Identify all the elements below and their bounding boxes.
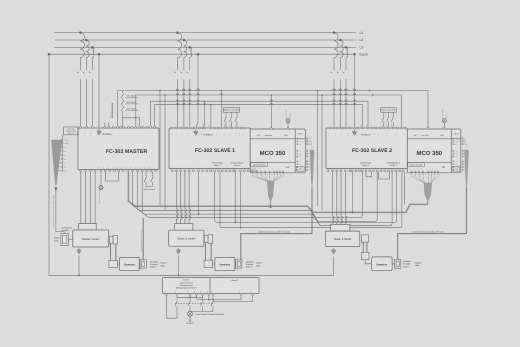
breaker L3 <box>189 69 191 71</box>
svg-text:12: 12 <box>413 168 415 170</box>
slave1 motor coupling <box>204 236 208 243</box>
relay line D from slave1 relay 2 <box>240 172 242 228</box>
power rail L3 <box>54 46 356 48</box>
slave2 absolute encoder <box>392 263 395 265</box>
svg-text:96: 96 <box>393 167 396 169</box>
svg-text:12: 12 <box>263 168 265 170</box>
svg-text:Output: Output <box>160 262 166 265</box>
svg-text:Master motor: Master motor <box>82 237 99 241</box>
signal bus 1 (screened master-encoder bus, grey) <box>128 171 427 212</box>
svg-text:96: 96 <box>208 167 211 169</box>
svg-text:Warning/Alarm: Warning/Alarm <box>230 161 243 164</box>
control line T1 (24V supply master to MCO2) <box>118 91 428 129</box>
svg-text:Enc: Enc <box>452 155 454 158</box>
relay line A from slave1 relay to slave2 <box>215 172 397 223</box>
slave2 motor <box>325 231 359 247</box>
svg-text:39: 39 <box>134 167 137 169</box>
svg-text:39: 39 <box>102 167 105 169</box>
MCO1 X57 pin <box>270 128 272 130</box>
MCO1 feedback cable to slave1 gearbox encoder <box>241 187 312 259</box>
svg-text:7 Z+: 7 Z+ <box>455 161 458 163</box>
svg-text:96: 96 <box>363 167 366 169</box>
svg-text:Absolute: Absolute <box>246 260 255 263</box>
svg-text:Sync/ Homed /Zeroed indication: Sync/ Homed /Zeroed indication <box>196 313 224 316</box>
branch between MCO1 and slave2 down to bus (b) <box>321 94 323 96</box>
svg-text:18: 18 <box>150 180 152 182</box>
master encoder cable from bus <box>142 218 144 260</box>
earth drop wire <box>196 54 198 128</box>
svg-text:96: 96 <box>359 167 362 169</box>
svg-text:39: 39 <box>144 167 147 169</box>
master motor terminal box <box>78 224 96 231</box>
supply dot L1 <box>176 31 179 34</box>
svg-text:96: 96 <box>353 167 356 169</box>
supply dot L1 <box>79 31 82 34</box>
master gearbox shaft <box>109 243 111 260</box>
MCO 350 option box for slave 2 <box>407 129 461 173</box>
master gearbox coupling <box>109 260 117 267</box>
svg-text:96: 96 <box>329 167 332 169</box>
earth drop wire <box>354 54 356 128</box>
svg-text:96: 96 <box>253 167 256 169</box>
earth drop dot <box>353 53 356 56</box>
svg-text:Start/Sim: Start/Sim <box>265 134 273 137</box>
svg-text:Gearbox: Gearbox <box>124 264 135 267</box>
svg-text:Absolute: Absolute <box>403 260 412 263</box>
svg-text:18: 18 <box>187 291 190 293</box>
left selector return wire <box>167 295 178 318</box>
svg-text:18: 18 <box>144 180 146 182</box>
svg-text:10 Gnd: 10 Gnd <box>299 170 304 172</box>
svg-text:2 GND: 2 GND <box>455 141 459 143</box>
svg-text:18: 18 <box>210 291 213 293</box>
svg-text:(At speed indication): (At speed indication) <box>98 187 101 204</box>
master absolute encoder <box>138 263 141 265</box>
svg-text:Output: Output <box>415 261 421 264</box>
svg-text:Encoder: Encoder <box>61 229 69 232</box>
svg-text:96: 96 <box>374 167 377 169</box>
slave2 earth symbol <box>354 130 356 132</box>
branch between MCO1 and slave2 down to bus (a) <box>317 90 319 92</box>
svg-text:shaft: shaft <box>415 264 420 267</box>
slave1 motor earth triangle <box>178 248 180 250</box>
svg-text:10 Gnd: 10 Gnd <box>455 170 460 172</box>
breaker L1 <box>333 69 335 71</box>
svg-text:96: 96 <box>190 167 193 169</box>
svg-text:MCT Step 1: MCT Step 1 <box>126 94 136 97</box>
MCO 350 option box for slave 1 <box>250 129 305 173</box>
svg-text:5 B+: 5 B+ <box>299 153 302 155</box>
earth drop dot <box>98 53 101 56</box>
svg-text:96: 96 <box>249 167 252 169</box>
master motor earth triangle <box>78 248 80 250</box>
svg-text:Slave 2: Slave 2 <box>231 279 239 282</box>
svg-text:96: 96 <box>400 167 403 169</box>
svg-text:96: 96 <box>338 167 341 169</box>
svg-text:Earth: Earth <box>360 52 368 56</box>
svg-text:96: 96 <box>182 167 185 169</box>
svg-text:96: 96 <box>378 167 381 169</box>
fuse L1 <box>178 33 182 69</box>
svg-text:Relay 2: Relay 2 <box>390 164 398 167</box>
svg-text:18: 18 <box>200 291 203 293</box>
master encoder screened cable wedge <box>52 140 63 187</box>
selector box (Case 1 / Slave 2) <box>163 278 260 294</box>
svg-text:96: 96 <box>389 167 392 169</box>
branch from T1 down between drives to signal bus <box>159 90 161 92</box>
svg-text:MCO 350: MCO 350 <box>416 150 442 157</box>
breaker L1 <box>79 69 81 71</box>
svg-text:96: 96 <box>349 167 352 169</box>
svg-text:18: 18 <box>206 291 209 293</box>
svg-text:9 Com: 9 Com <box>455 167 459 169</box>
svg-text:96: 96 <box>342 167 345 169</box>
svg-text:2 GND: 2 GND <box>299 141 303 143</box>
master motor <box>73 230 109 247</box>
svg-text:Encoder: Encoder <box>403 263 411 266</box>
slave1 bottom terminal row <box>171 170 173 172</box>
breaker L1 <box>177 69 179 71</box>
svg-text:Slave 1: Slave 1 <box>246 266 254 269</box>
breaker L2 <box>183 69 185 71</box>
svg-text:39: 39 <box>116 167 119 169</box>
MCO2 X58 pin <box>443 128 445 130</box>
svg-text:L3: L3 <box>360 46 364 50</box>
master encoder cable run <box>56 191 64 234</box>
slave2 bottom terminal row <box>327 170 329 172</box>
svg-text:12: 12 <box>426 168 428 170</box>
svg-text:96: 96 <box>195 167 198 169</box>
svg-text:96: 96 <box>382 167 385 169</box>
MCT step switch chain on master <box>122 91 124 94</box>
MCO1 feedback encoder pins and cable band <box>297 138 298 139</box>
MCO1 master-encoder cable to bus <box>270 202 272 206</box>
FC-302 MASTER drive box <box>78 128 159 170</box>
svg-text:shaft): shaft) <box>54 239 59 242</box>
control line T4 <box>155 105 363 129</box>
slave2 relay jumper U-link 2 <box>378 172 389 179</box>
FC-302 SLAVE 2 drive box <box>326 128 407 169</box>
signal bus 4 <box>142 171 392 225</box>
slave1 gearbox coupling <box>204 260 212 267</box>
slave1 motor wires U V W <box>177 172 179 224</box>
power rail L1 <box>54 32 356 34</box>
MCO1 X58 pin <box>287 128 289 130</box>
svg-text:Relay 1: Relay 1 <box>214 164 222 167</box>
svg-text:Relay 1: Relay 1 <box>362 164 370 167</box>
svg-text:96: 96 <box>356 167 359 169</box>
slave1 earth symbol <box>195 130 197 132</box>
breaker L2 <box>339 69 341 71</box>
svg-text:39: 39 <box>125 167 128 169</box>
fuse L1 <box>334 33 338 69</box>
selector box terminal pins <box>166 293 168 295</box>
MCO2 feedback cable to slave2 gearbox encoder <box>398 187 467 259</box>
svg-text:Master Commands: Master Commands <box>381 109 396 112</box>
svg-text:MCT Step 3: MCT Step 3 <box>126 107 136 110</box>
master motor coupling <box>109 236 113 243</box>
svg-text:39: 39 <box>148 167 151 169</box>
svg-text:39: 39 <box>139 167 142 169</box>
slave2 motor terminal box <box>331 224 350 231</box>
slave2 gearbox shaft <box>362 242 364 252</box>
svg-text:Start/reversing: Start/reversing <box>143 188 155 191</box>
svg-text:Master: Master <box>150 266 156 269</box>
svg-text:L2: L2 <box>360 38 364 42</box>
svg-text:96: 96 <box>367 167 370 169</box>
svg-text:MCO 350: MCO 350 <box>260 150 286 157</box>
selector switches <box>175 300 178 306</box>
svg-text:7 Z+: 7 Z+ <box>299 161 302 163</box>
slave1 absolute encoder <box>234 263 237 265</box>
supply dot L3 <box>91 46 94 49</box>
fuse L3 <box>346 47 348 68</box>
slave2 pin riser to MCO2 junction <box>404 172 406 205</box>
svg-text:18: 18 <box>163 291 166 293</box>
command switch box above slave 2 <box>381 108 396 112</box>
supply dot L3 <box>345 46 348 49</box>
breaker L3 <box>345 69 347 71</box>
svg-text:FC-302 MASTER: FC-302 MASTER <box>106 149 148 155</box>
svg-text:39: 39 <box>111 167 114 169</box>
slave2 top terminal row <box>330 127 332 129</box>
svg-text:39: 39 <box>120 167 123 169</box>
svg-text:(Hollow: (Hollow <box>54 237 61 240</box>
signal bus 2 <box>133 171 363 217</box>
svg-text:Option A: Option A <box>67 132 74 135</box>
master option sub-box <box>64 127 78 135</box>
svg-text:96: 96 <box>178 167 181 169</box>
svg-text:Profibus: Profibus <box>361 134 371 137</box>
master motor wires U V W <box>80 172 82 224</box>
fuse L1 <box>80 33 84 69</box>
svg-text:MCT Step 2: MCT Step 2 <box>126 101 136 104</box>
slave2 encoder-in wire to grey bus <box>351 172 353 213</box>
earth drop wire <box>98 54 100 127</box>
svg-text:96: 96 <box>241 167 244 169</box>
MCO2 master-encoder cable to bus <box>427 202 429 205</box>
virtual master indication lamp at MCO1 <box>286 119 290 123</box>
svg-text:Master Commands: Master Commands <box>224 109 239 112</box>
svg-text:24 VDC: 24 VDC <box>186 322 194 325</box>
svg-text:96: 96 <box>232 167 235 169</box>
svg-text:Gearbox: Gearbox <box>376 263 387 266</box>
svg-text:9 Com: 9 Com <box>299 167 303 169</box>
relay line B from slave1 relay to slave2 <box>220 172 402 228</box>
svg-text:3 A+: 3 A+ <box>299 144 302 146</box>
branch T4 to slave1 command terminal <box>210 104 212 106</box>
selector wiring harness <box>176 295 178 299</box>
branch from T2 down between drives to signal bus <box>164 94 166 96</box>
branch T3 to slave1 command terminal <box>204 100 206 102</box>
master relay return bracket <box>105 172 119 181</box>
svg-text:Relay 2: Relay 2 <box>234 164 242 167</box>
svg-text:96: 96 <box>169 167 172 169</box>
relay line C from slave1 relay 2 <box>234 172 236 223</box>
cable arrowhead <box>54 188 57 192</box>
svg-text:96: 96 <box>245 167 248 169</box>
svg-text:Output: Output <box>256 262 262 265</box>
svg-text:Gearbox: Gearbox <box>219 264 230 267</box>
svg-text:Screened/armoured cable (See n: Screened/armoured cable (See note) <box>52 195 55 228</box>
svg-text:FC-302 SLAVE 2: FC-302 SLAVE 2 <box>352 148 392 154</box>
svg-text:Homing switch: Homing switch <box>180 284 193 287</box>
svg-text:Sync level at 0: Sync level at 0 <box>180 281 194 284</box>
svg-text:5 B+: 5 B+ <box>455 153 458 155</box>
breaker L2 <box>85 69 87 71</box>
master option-A terminal pins <box>61 135 63 171</box>
incremental encoder <box>61 233 68 245</box>
option label bar <box>112 103 113 118</box>
PE bus dot at earth rail <box>48 53 51 56</box>
svg-text:MCB Ready: MCB Ready <box>212 161 223 164</box>
master earth symbol <box>98 129 100 131</box>
svg-text:1 +24V: 1 +24V <box>299 138 303 140</box>
svg-text:96: 96 <box>237 167 240 169</box>
svg-text:96: 96 <box>396 167 399 169</box>
svg-text:96: 96 <box>200 167 203 169</box>
svg-text:18: 18 <box>238 291 241 293</box>
PE ground bus (left drop, bottom run, right rise) <box>49 54 334 275</box>
svg-text:Start/Sim: Start/Sim <box>422 134 430 137</box>
signal bus 3 <box>137 171 377 221</box>
merge chevron on T1 <box>369 89 372 92</box>
FC-302 SLAVE 1 drive box <box>169 128 250 169</box>
svg-text:shaft: shaft <box>160 264 165 267</box>
svg-text:Enc: Enc <box>296 155 298 158</box>
svg-text:96: 96 <box>215 167 218 169</box>
fuse L3 <box>190 47 192 68</box>
slave2 motor coupling <box>362 235 369 242</box>
slave1 terminal 32 wire to bus3 <box>198 172 200 215</box>
svg-text:Encoder: Encoder <box>246 263 254 266</box>
branch T1 to slave1 terminal <box>221 90 223 92</box>
svg-text:Master Encoder: Master Encoder <box>410 163 423 166</box>
svg-text:MCB Ready: MCB Ready <box>360 161 371 164</box>
master start/reversing switches <box>145 171 147 176</box>
svg-text:(Screened/armoured cable. See: (Screened/armoured cable. See Note) <box>412 231 444 234</box>
svg-text:1 +24V: 1 +24V <box>455 138 459 140</box>
fuse L3 <box>92 47 94 68</box>
slave1 motor <box>169 230 204 246</box>
svg-text:96: 96 <box>204 167 207 169</box>
master bottom terminal row <box>80 170 82 172</box>
slave2 gearbox <box>372 257 393 271</box>
breaker L3 <box>91 69 93 71</box>
command switch box above slave 1 <box>223 108 239 112</box>
svg-text:18: 18 <box>250 291 253 293</box>
svg-text:L1: L1 <box>360 31 364 35</box>
merge chevron on T2 <box>372 94 375 97</box>
svg-text:Profibus: Profibus <box>204 134 214 137</box>
fuse L2 <box>184 40 187 69</box>
slave2 gearbox coupling <box>361 252 369 259</box>
virtual master indication lamp at MCO2 <box>442 119 446 123</box>
svg-text:96: 96 <box>385 167 388 169</box>
stub wires 88 89 <box>104 123 106 127</box>
master top terminal row <box>79 126 81 128</box>
master gearbox <box>120 257 140 270</box>
svg-text:Slave 2 Motor: Slave 2 Motor <box>334 237 352 241</box>
svg-text:(Manual/Auto to home): (Manual/Auto to home) <box>176 287 197 290</box>
earth rail PE <box>48 53 357 55</box>
svg-text:Slave 2: Slave 2 <box>403 265 411 268</box>
svg-text:96: 96 <box>334 167 337 169</box>
earth drop dot <box>197 53 200 56</box>
svg-text:18: 18 <box>174 291 177 293</box>
svg-text:(Screened cable. See Note): (Screened cable. See Note) <box>140 229 143 252</box>
svg-text:(Screened/armoured cable. See: (Screened/armoured cable. See Note) <box>258 231 290 234</box>
fuse L2 <box>86 40 89 69</box>
sync indication lamp <box>188 311 193 316</box>
control line T3 <box>151 101 368 128</box>
svg-text:96: 96 <box>223 167 226 169</box>
svg-text:Warning/Alarm: Warning/Alarm <box>387 161 400 164</box>
svg-text:Encoder: Encoder <box>150 263 158 266</box>
svg-text:96: 96 <box>186 167 189 169</box>
svg-text:96: 96 <box>227 167 230 169</box>
slave1 gearbox <box>215 257 235 270</box>
svg-text:96: 96 <box>219 167 222 169</box>
MCO2 X57 pin <box>427 128 429 130</box>
slave2 motor wires U V W <box>333 172 335 227</box>
switch outputs merge <box>190 311 213 313</box>
svg-text:39: 39 <box>152 167 155 169</box>
svg-text:Absolute: Absolute <box>150 260 159 263</box>
svg-text:39: 39 <box>130 167 133 169</box>
svg-text:shaft: shaft <box>256 264 261 267</box>
power rail L2 <box>54 39 356 41</box>
slave2 motor earth triangle <box>333 248 335 250</box>
supply dot L3 <box>189 46 192 49</box>
svg-text:Master Encoder: Master Encoder <box>253 163 266 166</box>
svg-text:MCO: MCO <box>454 133 459 136</box>
branch T2 to MCO1 X57 input <box>271 94 273 96</box>
MCO2 master-encoder input pins and wedge <box>411 171 412 172</box>
MCO2 feedback encoder pins and cable band <box>453 138 454 139</box>
supply dot L2 <box>85 39 88 42</box>
svg-text:Case 1: Case 1 <box>183 279 190 282</box>
svg-text:96: 96 <box>173 167 176 169</box>
svg-text:Slave 1 motor: Slave 1 motor <box>177 237 195 241</box>
svg-text:18: 18 <box>193 291 196 293</box>
supply dot L1 <box>333 31 336 34</box>
control line T2 <box>136 95 402 128</box>
slave1 gearbox shaft <box>205 243 207 260</box>
supply dot L2 <box>183 39 186 42</box>
svg-text:Incremental: Incremental <box>61 226 72 229</box>
svg-text:FC-302 SLAVE 1: FC-302 SLAVE 1 <box>195 148 235 154</box>
svg-text:3 A+: 3 A+ <box>455 144 458 146</box>
supply dot L2 <box>339 39 342 42</box>
MCO1 master-encoder input pins and wedge <box>252 171 253 172</box>
slave1 top terminal row <box>170 127 172 129</box>
svg-text:39: 39 <box>98 167 101 169</box>
svg-text:39: 39 <box>107 167 110 169</box>
svg-text:96: 96 <box>370 167 373 169</box>
svg-text:MCO: MCO <box>298 133 303 136</box>
fuse L2 <box>340 40 343 69</box>
svg-text:96: 96 <box>212 167 215 169</box>
svg-text:96: 96 <box>325 167 328 169</box>
slave1 motor terminal box <box>174 224 193 231</box>
master relay lamp (at speed indication) <box>100 172 102 186</box>
slave2 relay jumper U-link 1 <box>366 172 372 177</box>
